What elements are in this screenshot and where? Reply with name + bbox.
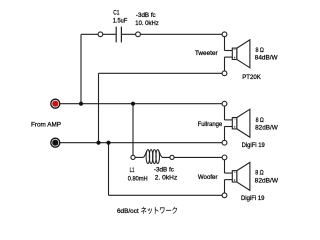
pin mark minus tweeter xyxy=(234,49,236,51)
svg-text:1.5uF: 1.5uF xyxy=(113,18,128,24)
wire L1 rail left xyxy=(133,156,143,158)
svg-text:PT20K: PT20K xyxy=(242,74,261,81)
svg-text:84dB/W: 84dB/W xyxy=(255,55,279,62)
pin mark minus woofer xyxy=(234,171,236,173)
svg-text:8 Ω: 8 Ω xyxy=(256,47,265,54)
svg-text:-3dB fc: -3dB fc xyxy=(154,167,174,173)
svg-text:DigiFi 19: DigiFi 19 xyxy=(242,143,266,149)
wire plus rail xyxy=(55,103,224,105)
pin circle woofer minus xyxy=(222,193,227,198)
svg-text:2. 0kHz: 2. 0kHz xyxy=(155,176,178,182)
wire top rail right of C1 xyxy=(122,33,225,35)
svg-text:6dB/oct: 6dB/oct xyxy=(117,209,139,215)
wire vertical branch plus rail to L1 xyxy=(132,104,134,158)
svg-text:Fullrange: Fullrange xyxy=(198,122,223,128)
svg-text:0.80mH: 0.80mH xyxy=(128,176,148,182)
svg-text:From AMP: From AMP xyxy=(31,121,61,128)
svg-text:82dB/W: 82dB/W xyxy=(255,177,279,184)
inductor L1 coil xyxy=(143,150,162,164)
svg-text:82dB/W: 82dB/W xyxy=(255,124,279,131)
pin circle C1 left xyxy=(98,32,103,37)
svg-text:Tweeter: Tweeter xyxy=(195,51,218,57)
pin circle tweeter minus xyxy=(222,71,227,76)
pin circle woofer plus xyxy=(222,155,227,160)
speaker tweeter xyxy=(225,34,250,73)
svg-text:10. 0kHz: 10. 0kHz xyxy=(135,21,158,27)
pin mark plus tweeter xyxy=(234,57,236,59)
svg-text:8 Ω: 8 Ω xyxy=(255,170,264,177)
pin circle tweeter plus xyxy=(222,32,227,37)
input terminal plus (red) xyxy=(51,99,60,108)
speaker woofer xyxy=(225,157,250,195)
wire L1 rail right xyxy=(162,156,224,158)
pin circle fullrange minus xyxy=(222,140,227,145)
wire minus rail xyxy=(55,142,224,144)
pin mark minus fullrange xyxy=(234,118,236,120)
junction dot plus rail / L1 branch xyxy=(131,102,135,106)
svg-text:8 Ω: 8 Ω xyxy=(256,117,264,124)
pin circle L1 right xyxy=(170,155,174,159)
pin circle L1 left xyxy=(131,155,135,159)
wire tweeter return horizontal xyxy=(99,72,225,74)
label caption katakana network xyxy=(141,207,177,214)
pin circle fullrange plus xyxy=(222,101,227,106)
pin mark plus fullrange xyxy=(234,126,236,128)
junction dot plus rail / C1 branch xyxy=(79,102,83,106)
pin circle C1 right xyxy=(136,32,141,37)
svg-text:C1: C1 xyxy=(113,11,120,17)
svg-text:Woofer: Woofer xyxy=(198,175,218,181)
pin mark plus woofer xyxy=(234,179,236,181)
capacitor C1 plates xyxy=(116,27,121,43)
wire vertical branch plus rail to top rail xyxy=(80,34,82,103)
junction dot minus rail / tweeter return xyxy=(96,141,100,145)
speaker fullrange xyxy=(225,104,250,143)
svg-text:-3dB fc: -3dB fc xyxy=(136,13,156,19)
wire top rail left of C1 xyxy=(81,33,116,35)
wire woofer return vertical xyxy=(108,143,110,196)
junction dot minus rail / woofer return xyxy=(106,141,110,145)
wire tweeter return vertical xyxy=(98,73,100,142)
svg-text:L1: L1 xyxy=(130,168,135,174)
svg-text:DigiFi 19: DigiFi 19 xyxy=(241,196,265,202)
wire woofer return horizontal xyxy=(109,194,225,196)
input terminal minus (black) xyxy=(51,138,60,147)
